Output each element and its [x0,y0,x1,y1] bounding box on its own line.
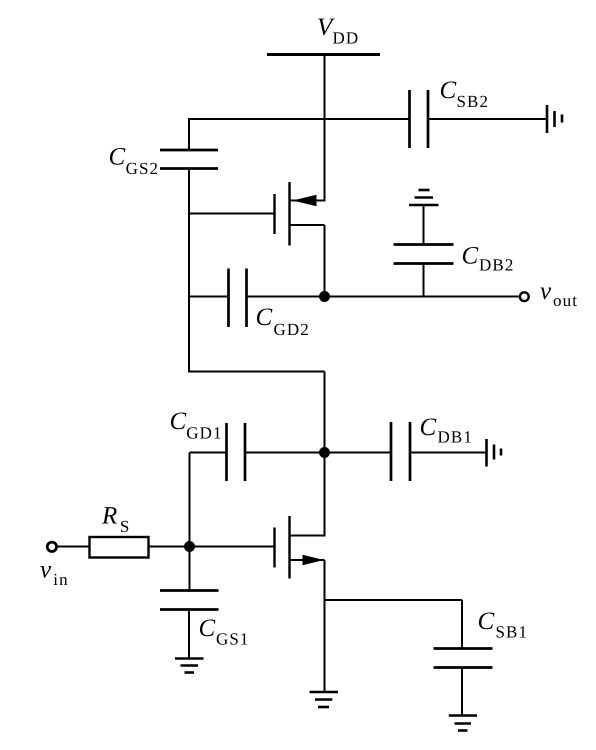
svg-text:SB1: SB1 [496,623,529,642]
ground bottom right [449,716,477,731]
svg-text:C: C [199,615,216,642]
svg-text:DB1: DB1 [438,428,473,447]
wire C_DB2 down to output wire [423,264,425,297]
capacitor C_GS1 [160,591,250,649]
wire M2 gate lead [189,213,275,215]
wire gate-loop bottom horizontal [189,371,325,373]
wire C_GD2 right to output node [247,296,325,298]
capacitor C_GD1 [170,408,246,481]
wire C_GD1 right to node [245,452,325,454]
svg-text:in: in [53,570,68,589]
wire top horizontal (C_GS2 top to C_SB2) [188,118,410,120]
svg-text:SB2: SB2 [457,92,490,111]
capacitor C_GS2 [109,143,219,178]
capacitor C_SB2 [410,77,490,148]
wire output [325,296,519,298]
svg-text:DD: DD [333,29,360,48]
wire left branch down to C_GS2 [188,118,190,150]
svg-text:GS2: GS2 [126,159,160,178]
ground sideways top-right [547,105,562,133]
capacitor C_SB1 [434,608,529,668]
node output junction [319,291,330,302]
wire M2 source down to output node [324,225,326,297]
wire M1 gate node down to C_GS1 [189,547,191,592]
wire M2 gate node vertical [188,169,190,373]
wire C_GS1 to ground [188,610,190,659]
wire left branch C_GD1 to M1 gate node [189,453,191,548]
svg-text:v: v [540,278,552,305]
label V_DD [317,14,359,48]
wire node to C_DB1 [325,452,392,454]
VDD power rail bar [267,53,380,56]
svg-text:R: R [101,503,117,530]
capacitor C_DB2 [394,242,515,274]
svg-text:C: C [256,304,273,331]
node M1 gate junction [184,541,195,552]
svg-text:GS1: GS1 [216,630,250,649]
transistor M1 [275,516,326,579]
wire C_SB1 to ground [461,668,463,716]
svg-text:S: S [120,517,131,536]
ground below C_GS1 [175,659,204,673]
svg-text:v: v [40,556,52,583]
svg-text:GD1: GD1 [186,424,222,443]
wire M1 drain vertical [324,372,326,537]
svg-text:C: C [440,77,457,104]
capacitor C_DB1 [391,414,473,481]
svg-text:C: C [420,414,437,441]
svg-text:C: C [478,608,495,635]
terminal v_in [40,542,69,589]
wire C_GD2 left [189,296,228,298]
svg-text:DB2: DB2 [479,256,514,275]
svg-text:C: C [170,408,187,435]
node M1 drain junction [319,447,330,458]
wire R_S to M1 gate [149,546,276,548]
transistor M2 [275,182,325,246]
ground sideways middle-right [487,439,502,467]
wire VDD rail down to M2 drain [324,55,326,202]
ground bottom middle [310,692,339,707]
wire C_SB2 to right ground [428,118,547,120]
wire M1 source down to ground [324,560,326,692]
svg-text:C: C [462,242,479,269]
ground inverted above C_DB2 [409,190,439,205]
wire C_DB1 to right ground [410,452,487,454]
terminal v_out [520,278,578,310]
svg-text:out: out [553,291,578,310]
resistor R_S [90,503,149,558]
svg-text:C: C [109,143,126,170]
wire C_GD1 left [190,452,228,454]
wire ground to C_DB2 [423,205,425,245]
wire M1 source to C_SB1 [325,600,463,649]
svg-text:GD2: GD2 [274,320,310,339]
wire v_in to R_S [58,546,90,548]
capacitor C_GD2 [229,269,310,340]
